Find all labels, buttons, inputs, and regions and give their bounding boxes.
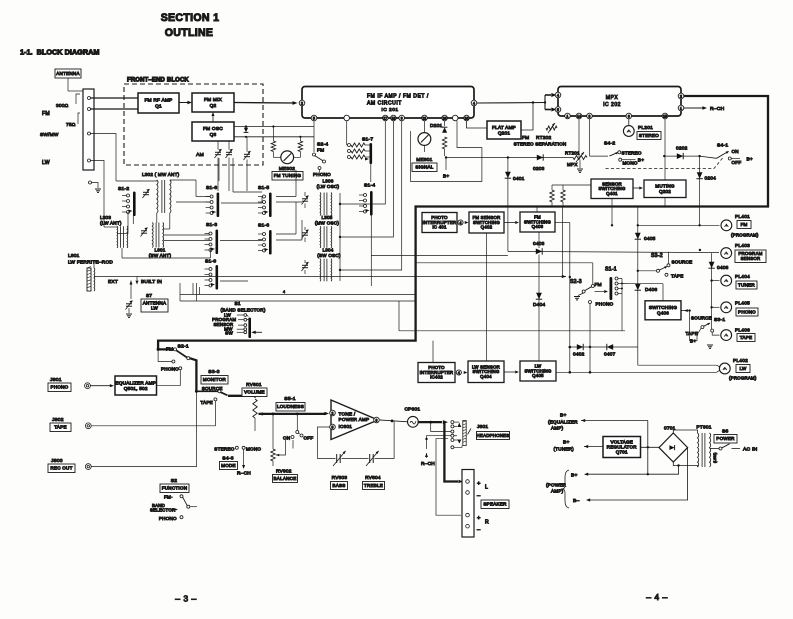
switch S3-3 <box>196 390 218 392</box>
diode D401 <box>505 172 511 178</box>
switch S1-4 bank <box>370 191 373 216</box>
svg-text:0202: 0202 <box>676 146 688 152</box>
wire to pl404 <box>712 280 720 282</box>
res meter right <box>299 137 301 141</box>
svg-text:R–CH: R–CH <box>237 471 251 477</box>
wire vert 638 <box>637 207 639 366</box>
svg-text:(SW OSC): (SW OSC) <box>317 253 341 258</box>
svg-text:PL401: PL401 <box>735 214 750 220</box>
svg-text:SELECTOR: SELECTOR <box>150 508 175 513</box>
wire s3-2 up <box>668 252 670 264</box>
wire s3-1 tape to pl406 <box>712 332 719 335</box>
svg-text:FM: FM <box>166 347 173 353</box>
wire pin21 to meter <box>423 121 425 132</box>
wire L303 top <box>103 188 105 227</box>
wire s1-1 out <box>622 283 631 285</box>
label PROGRAM SENSOR boxed <box>735 250 766 263</box>
node pl401 a <box>637 224 639 226</box>
svg-text:D406: D406 <box>645 287 657 293</box>
diode D405 <box>635 233 641 239</box>
svg-text:L305: L305 <box>321 215 332 220</box>
svg-text:LW FERRITE–ROD: LW FERRITE–ROD <box>68 260 113 266</box>
fm switching Q403 <box>520 212 555 232</box>
contact on <box>291 436 294 439</box>
svg-text:5: 5 <box>313 116 315 120</box>
pin MPX bottom 4 <box>626 113 632 119</box>
diode D406 <box>635 284 641 290</box>
wire s2-1 out thick <box>190 358 197 390</box>
svg-text:BALANCE: BALANCE <box>274 476 297 481</box>
svg-text:Q701: Q701 <box>616 450 628 455</box>
svg-text:(TUNER): (TUNER) <box>554 447 575 452</box>
svg-text:4: 4 <box>557 93 559 97</box>
coil L305 MW OSC <box>319 226 322 247</box>
svg-text:LW: LW <box>42 160 50 166</box>
svg-text:STEREO: STEREO <box>639 133 659 138</box>
wire pin20 elbow <box>411 121 482 182</box>
wire osc aux bus <box>371 255 508 257</box>
svg-text:S3-3: S3-3 <box>208 369 219 375</box>
svg-text:S1-4: S1-4 <box>364 183 375 189</box>
pin IC401 out <box>458 220 463 225</box>
label BALANCE boxed <box>273 475 298 483</box>
svg-text:0701: 0701 <box>664 426 676 432</box>
svg-text:MONO: MONO <box>246 447 261 452</box>
wire SW/MW feed <box>90 134 116 182</box>
svg-text:14: 14 <box>577 114 581 118</box>
svg-text:TAPE: TAPE <box>200 400 213 405</box>
contact SW/MW <box>88 132 91 135</box>
svg-text:D404: D404 <box>533 302 545 308</box>
svg-text:STEREO SEPARATION: STEREO SEPARATION <box>514 142 567 147</box>
svg-text:RV604: RV604 <box>365 475 381 481</box>
svg-text:SW/MW: SW/MW <box>40 132 59 138</box>
svg-text:MPX: MPX <box>567 162 578 167</box>
pin IC201 bottom 4 <box>391 115 397 121</box>
svg-text:10: 10 <box>465 116 469 120</box>
svg-text:RT201: RT201 <box>565 151 580 156</box>
varcap L305 <box>304 227 306 230</box>
oscillator FM OSC Q3 <box>192 122 234 141</box>
fm sensor switching Q402 <box>469 212 504 233</box>
switch S6 power <box>710 448 720 450</box>
wire q406 feed <box>631 283 663 285</box>
wire muting bottom <box>664 198 666 207</box>
svg-text:PL201: PL201 <box>638 125 653 131</box>
svg-text:– 4 –: – 4 – <box>646 592 668 602</box>
svg-text:SOURCE: SOURCE <box>672 260 693 265</box>
svg-text:L301: L301 <box>154 248 165 253</box>
wire gnd stub <box>92 183 99 189</box>
svg-text:FM: FM <box>522 135 529 141</box>
label VOLUME boxed <box>242 388 267 397</box>
svg-text:R–CH: R–CH <box>710 106 725 112</box>
pin IC402 out <box>456 370 461 375</box>
svg-text:S2: S2 <box>171 478 178 484</box>
node s3-3 junction <box>195 390 198 393</box>
sensor switching Q401 <box>591 179 633 199</box>
svg-text:FM OSC: FM OSC <box>203 126 223 132</box>
svg-text:0408: 0408 <box>717 265 729 271</box>
wire det out line <box>446 157 573 159</box>
svg-text:B+: B+ <box>638 158 644 164</box>
brace power amp <box>562 470 569 508</box>
ground antenna <box>95 188 101 190</box>
svg-text:(LW OSC): (LW OSC) <box>317 184 340 189</box>
svg-text:(SW ANT): (SW ANT) <box>149 253 172 258</box>
wire IC201 pin4 to MPX <box>477 102 545 105</box>
wire J802 to monitor <box>91 401 215 426</box>
pin IC601 2 <box>330 410 336 416</box>
diode D403 <box>536 249 542 255</box>
svg-text:ON: ON <box>732 149 739 154</box>
svg-text:Q404: Q404 <box>480 374 492 379</box>
wire b- poweramp <box>588 448 688 500</box>
svg-text:Q201: Q201 <box>498 130 511 135</box>
coil L301 SW ANT <box>151 223 154 248</box>
svg-text:LOUDNESS: LOUDNESS <box>277 404 304 409</box>
wire flat amp out <box>521 103 533 131</box>
label MODE boxed <box>220 462 238 470</box>
wire coupling split <box>544 95 546 110</box>
svg-text:Q402: Q402 <box>481 225 493 230</box>
pin MPX 2 <box>678 93 684 99</box>
svg-text:SECTION 1: SECTION 1 <box>161 12 220 24</box>
contact antenna gnd <box>89 181 92 184</box>
wire IC201 pin10 to flat amp <box>467 121 488 128</box>
pot RV604 treble <box>369 454 371 463</box>
label LW boxed <box>736 365 750 373</box>
svg-text:B+: B+ <box>443 174 449 180</box>
svg-text:S1-8: S1-8 <box>206 185 217 191</box>
node balance junction <box>272 413 275 416</box>
svg-text:S5-1: S5-1 <box>284 396 295 402</box>
svg-text:SOURCE: SOURCE <box>691 316 712 321</box>
svg-text:1: 1 <box>567 114 569 118</box>
svg-text:B+: B+ <box>747 157 753 163</box>
node jack junction <box>429 421 432 424</box>
svg-text:S1-1: S1-1 <box>605 267 617 273</box>
svg-text:(L601): (L601) <box>713 453 717 463</box>
node loudness junction <box>296 413 299 416</box>
svg-text:21: 21 <box>423 116 427 120</box>
varcap S7 <box>126 303 132 305</box>
svg-text:BASS: BASS <box>332 483 345 488</box>
switch S1-5 bank <box>269 193 272 218</box>
svg-text:Q3: Q3 <box>210 132 217 138</box>
wire q403 top <box>536 207 538 213</box>
wire regulator to bridge <box>641 446 661 448</box>
coil L302 MW ANT <box>157 180 158 213</box>
svg-text:EQUALIZER AMP: EQUALIZER AMP <box>115 380 156 385</box>
node osc bus 1 <box>339 203 341 205</box>
pin IC201 bottom 5 <box>399 115 405 121</box>
node det junction <box>445 156 447 158</box>
wire s2-3 gnd <box>578 293 584 296</box>
wire line 330 <box>399 330 625 332</box>
svg-text:MONO: MONO <box>623 161 638 166</box>
ground S7 <box>128 308 130 313</box>
svg-text:ME801: ME801 <box>416 157 432 163</box>
svg-text:6: 6 <box>628 114 630 118</box>
label TREBLE boxed <box>363 482 385 490</box>
wire tuner link h <box>220 240 262 242</box>
front-end dashed box <box>124 84 263 165</box>
svg-text:PL402: PL402 <box>733 358 748 364</box>
antenna terminal strip S5 <box>83 89 94 170</box>
svg-text:AMP): AMP) <box>551 489 564 494</box>
label FM TUNING boxed <box>272 172 303 181</box>
svg-text:AMP): AMP) <box>551 426 564 431</box>
label HEADPHONES boxed <box>477 432 510 440</box>
wire S1-4 down <box>370 214 372 286</box>
wire R-CH out <box>684 107 703 109</box>
svg-text:RV603: RV603 <box>332 475 348 481</box>
terminal L- <box>466 491 470 495</box>
pin IC201 in <box>299 100 305 106</box>
pot RT202 <box>546 126 557 130</box>
lamp PL403 <box>721 248 732 259</box>
label TUNER boxed <box>736 281 757 289</box>
wire bridge to xfmr top <box>673 430 697 433</box>
label ANTENNA LW boxed <box>141 299 168 312</box>
svg-text:(POWER: (POWER <box>546 483 567 488</box>
svg-text:B+: B+ <box>560 413 567 419</box>
capacitor CP601 <box>408 416 419 427</box>
wire tuner link g <box>221 202 262 204</box>
wire to pl405 <box>712 306 720 308</box>
svg-text:SENSOR: SENSOR <box>741 256 761 261</box>
label MONITOR boxed <box>201 376 228 385</box>
arrow Q402 to Q403 <box>504 222 515 224</box>
photo interrupter IC401 <box>422 213 457 233</box>
arrow IC401 to Q402 <box>465 221 469 224</box>
wire b+ eq <box>581 419 585 422</box>
pot RT201 MPX <box>578 119 580 158</box>
svg-text:75Ω: 75Ω <box>66 122 76 128</box>
svg-text:B–: B– <box>573 498 580 504</box>
svg-text:S1-3: S1-3 <box>206 222 217 228</box>
svg-text:IC402: IC402 <box>430 375 443 380</box>
node s2-1 junction <box>157 348 160 351</box>
svg-text:20: 20 <box>443 116 447 120</box>
svg-text:FM·: FM· <box>164 495 173 500</box>
switching Q406 <box>645 301 681 320</box>
wire S4-1 common <box>700 156 717 158</box>
wire LW feed <box>90 161 104 189</box>
coil L801 ferrite rod <box>87 268 91 291</box>
svg-text:0204: 0204 <box>705 176 717 182</box>
wire jack rch <box>427 436 451 449</box>
lamp PL406 <box>721 330 732 341</box>
svg-text:Q401: Q401 <box>606 191 618 196</box>
wire pl403 to d408 <box>711 253 713 331</box>
wire q406 right <box>681 310 686 312</box>
wire tuner link k <box>276 233 296 235</box>
svg-text:13: 13 <box>392 116 396 120</box>
wire FM antenna lower <box>90 108 138 110</box>
svg-text:S1-5: S1-5 <box>258 185 269 191</box>
svg-text:(MW OSC): (MW OSC) <box>315 221 339 226</box>
svg-text:L303: L303 <box>100 215 111 220</box>
svg-text:MONITOR: MONITOR <box>203 377 227 382</box>
wire band selector arrow <box>170 509 175 511</box>
svg-text:+: + <box>477 516 481 522</box>
label FM boxed <box>737 221 751 229</box>
svg-text:L304: L304 <box>322 248 333 253</box>
wire Q2 to IC201 <box>234 102 294 105</box>
node ferrite line junction <box>569 276 571 278</box>
svg-text:OFF: OFF <box>732 160 742 165</box>
wire tuner link f <box>164 234 210 236</box>
svg-text:(LW ANT): (LW ANT) <box>100 221 122 226</box>
svg-text:S2-3: S2-3 <box>570 279 582 285</box>
label REC OUT boxed <box>48 464 75 473</box>
switch S3-2 <box>638 270 657 272</box>
diode D201 <box>444 121 446 126</box>
lw sensor switching Q404 <box>468 361 504 383</box>
node pl403 junction <box>699 249 701 251</box>
wire long line 298 <box>180 300 416 302</box>
label SIGNAL boxed <box>412 163 437 172</box>
varcap L306 <box>304 192 306 196</box>
mixer FM MIX Q2 <box>192 93 234 112</box>
svg-text:RT202: RT202 <box>536 135 552 141</box>
svg-text:3: 3 <box>589 114 591 118</box>
photo interrupter IC402 <box>418 363 455 383</box>
svg-text:STEREO: STEREO <box>214 447 234 452</box>
svg-text:R: R <box>485 520 489 526</box>
wire s2-4 to L306 <box>319 170 321 173</box>
wire CP601 to jack <box>418 421 442 423</box>
arrow Q404 to Q405 <box>504 371 515 373</box>
label POWER boxed <box>714 435 737 444</box>
svg-text:0402: 0402 <box>573 352 585 358</box>
wire MPX pin15 down <box>664 119 666 180</box>
IC U202 MPX <box>558 87 681 117</box>
svg-text:S3-2: S3-2 <box>651 253 663 259</box>
node D204 junction <box>698 155 700 157</box>
svg-text:(PROGRAM): (PROGRAM) <box>731 233 759 238</box>
switch S1 selector <box>248 318 251 339</box>
svg-text:LW: LW <box>151 306 158 311</box>
wire vert 399 <box>398 301 400 331</box>
svg-text:FM IF AMP / FM DET /: FM IF AMP / FM DET / <box>367 94 429 100</box>
contact LW <box>88 159 91 162</box>
pin IC201 4 <box>471 100 477 106</box>
pin IC201 bottom 1 <box>311 115 317 121</box>
switch S1-1 bank <box>610 277 613 300</box>
wire tuner link a <box>127 212 129 234</box>
wire vert 179 <box>179 295 181 302</box>
svg-text:PT801: PT801 <box>696 425 711 431</box>
svg-text:FM RF AMP: FM RF AMP <box>144 98 172 104</box>
wire res bus <box>552 184 591 186</box>
diode D402 <box>577 344 583 350</box>
svg-text:TREBLE: TREBLE <box>364 483 383 488</box>
switch S1-6 bank <box>269 230 272 255</box>
switch S1-8 bank <box>217 193 220 218</box>
svg-text:IC 201: IC 201 <box>381 107 398 113</box>
switch S1-3 bank <box>216 230 219 255</box>
svg-text:L801: L801 <box>68 253 80 259</box>
pin MPX 1 <box>678 105 684 111</box>
svg-text:S4-3: S4-3 <box>222 456 233 462</box>
svg-text:MODE: MODE <box>221 463 236 468</box>
pin IC201 bottom 3 <box>383 115 389 121</box>
svg-text:(PROGRAM): (PROGRAM) <box>729 376 757 381</box>
svg-text:FM: FM <box>317 148 324 154</box>
wire ferrite top <box>93 262 95 268</box>
svg-text:STEREO: STEREO <box>622 150 642 155</box>
switch S1-2 bank <box>133 192 136 217</box>
wire fm feed bus <box>416 262 593 264</box>
wire vert 562 <box>561 207 563 278</box>
wire Q1 to Q2 <box>179 102 188 104</box>
svg-text:+: + <box>477 481 481 487</box>
svg-text:MPX: MPX <box>606 95 619 101</box>
svg-text:PHONO: PHONO <box>738 310 756 315</box>
pin IC601 8 <box>374 417 380 423</box>
svg-text:4: 4 <box>458 371 460 375</box>
svg-text:S7: S7 <box>146 293 152 299</box>
contact PHONO s2-1 <box>179 367 182 370</box>
lw switching Q405 <box>520 361 556 381</box>
node amp out <box>391 420 394 423</box>
wire s4-2 feed <box>589 119 591 156</box>
pin IC201 bottom 2 <box>344 115 350 121</box>
wire tuner link b <box>132 215 134 225</box>
wire long line 288 <box>180 294 416 296</box>
wire tuner link d <box>170 179 196 181</box>
muting Q202 <box>644 180 686 198</box>
svg-text:Q406: Q406 <box>657 310 669 315</box>
builtin arrow <box>135 281 138 285</box>
wire d404 column <box>538 255 540 362</box>
svg-text:AM CIRCUIT: AM CIRCUIT <box>367 101 402 107</box>
wire D204 branch <box>699 156 701 225</box>
svg-text:4: 4 <box>283 290 285 294</box>
wire FM antenna upper <box>90 97 138 99</box>
ext arrow <box>129 281 132 285</box>
wire ferrite long line <box>94 276 566 278</box>
svg-text:–: – <box>477 493 481 499</box>
dashed link S4-1 S4-2 <box>606 158 724 169</box>
svg-text:17: 17 <box>383 116 387 120</box>
node osc bus 2 <box>339 236 341 238</box>
lamp PL201 <box>623 126 634 137</box>
svg-text:4: 4 <box>460 221 462 225</box>
wire AM rail lower <box>234 136 314 138</box>
svg-text:S1-9: S1-9 <box>205 259 216 265</box>
svg-text:B+: B+ <box>571 473 578 479</box>
svg-text:S1: S1 <box>235 301 241 307</box>
switch S2 function <box>180 495 183 498</box>
switch S1-9 bank <box>216 265 219 290</box>
svg-text:FM MIX: FM MIX <box>204 97 223 103</box>
svg-text:OUTLINE: OUTLINE <box>165 27 214 39</box>
wire B+ stub <box>445 158 447 171</box>
wire pl403 feed <box>508 251 719 252</box>
label TAPE boxed 406 <box>737 334 755 342</box>
wire meter bottom <box>423 146 425 153</box>
terminal R+ <box>466 513 470 517</box>
svg-text:5: 5 <box>557 108 559 112</box>
wire vert 570 <box>569 223 571 373</box>
svg-text:PL405: PL405 <box>735 301 750 307</box>
wire loudness down <box>292 440 294 449</box>
pin IC201 bottom 8 <box>452 115 458 121</box>
